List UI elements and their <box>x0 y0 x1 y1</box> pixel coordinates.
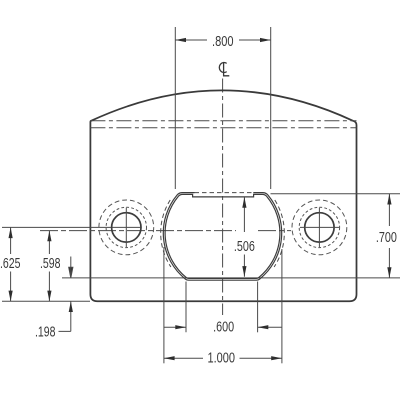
dim .600 left outside arrow <box>164 326 186 328</box>
left hole dashed circle outer <box>99 200 154 255</box>
dim 1.000 arrow right <box>271 356 282 360</box>
phantom line top 1 <box>90 120 356 122</box>
extension line cavity-bottom (y=277.9) <box>62 277 400 279</box>
dim .600 text <box>213 319 234 335</box>
dim 1.000 extension line left <box>163 247 165 363</box>
extension line cavity-top right (y=193.8) <box>271 193 400 195</box>
body outline <box>90 90 356 301</box>
cavity dashed echo right <box>274 200 284 267</box>
dim .198 text <box>35 324 56 340</box>
left hole dashed circle inner <box>106 207 146 247</box>
dim .625 arrow down <box>9 291 13 302</box>
dim .800 left extension line <box>174 27 176 189</box>
dim .600 right outside arrow <box>258 326 282 328</box>
right hole dashed circle outer <box>292 200 347 255</box>
dim 1.000 line right segment <box>240 357 282 359</box>
dim 1.000 line left segment <box>164 357 203 359</box>
svg-text:1.000: 1.000 <box>208 351 236 367</box>
dim .700 text <box>376 230 397 246</box>
dim .800 line left segment <box>175 39 207 41</box>
dim .506 line <box>243 197 245 277</box>
dim .506 arrow down <box>242 266 246 277</box>
svg-text:.600: .600 <box>213 319 234 335</box>
dim .625 text <box>0 256 21 272</box>
dim .598 arrow up <box>47 231 51 242</box>
extension line body-bottom left (y=301.3) <box>2 300 90 302</box>
dim .198 lower arrow and leader <box>59 301 71 331</box>
right hole dashed circle inner <box>299 207 339 247</box>
centerline vertical <box>222 79 224 316</box>
left hole vertical crosshair <box>125 208 127 248</box>
right hole horizontal crosshair <box>300 226 339 228</box>
svg-text:.198: .198 <box>35 324 56 340</box>
cavity dashed echo left <box>161 200 171 267</box>
dim .625 arrow up <box>9 227 13 238</box>
dim 1.000 extension line right <box>281 249 283 363</box>
left hole circle <box>112 213 141 242</box>
svg-text:.800: .800 <box>212 34 234 50</box>
right hole vertical crosshair <box>318 208 320 248</box>
dim .198 upper arrow <box>69 257 73 278</box>
right hole circle <box>305 213 334 242</box>
svg-text:.700: .700 <box>376 230 397 246</box>
dim .800 line right segment <box>239 39 271 41</box>
dim 1.000 arrow left <box>164 356 175 360</box>
dim .700 arrow down <box>387 267 391 278</box>
dim .800 text <box>212 34 234 50</box>
cavity outer outline <box>163 193 281 281</box>
dim .625 line <box>10 227 12 301</box>
dim .506 arrow up <box>242 197 246 208</box>
dim .598 arrow down <box>47 291 51 302</box>
cavity hidden top edge dashed <box>195 192 254 194</box>
extension line hole-center left (y=227.4) <box>2 226 141 228</box>
extension line cavity-center (y=230.6) <box>40 230 291 232</box>
phantom line top 2 <box>90 127 356 129</box>
centerline symbol <box>219 63 226 73</box>
dim .700 arrow up <box>387 194 391 205</box>
cavity inner outline with notch <box>165 194 280 278</box>
svg-text:.598: .598 <box>40 256 61 272</box>
dim 1.000 text <box>208 351 236 367</box>
dim .506 text <box>234 239 255 255</box>
dim .600 extension line right <box>257 282 259 333</box>
dim .598 line <box>48 231 50 302</box>
dim .800 right extension line <box>270 27 272 189</box>
dim .800 arrow left <box>175 38 186 42</box>
dim .700 line <box>388 194 390 278</box>
svg-text:.506: .506 <box>234 239 255 255</box>
dim .800 arrow right <box>260 38 271 42</box>
dim .600 extension line left <box>185 282 187 333</box>
svg-text:.625: .625 <box>0 256 21 272</box>
dim .598 text <box>40 256 61 272</box>
